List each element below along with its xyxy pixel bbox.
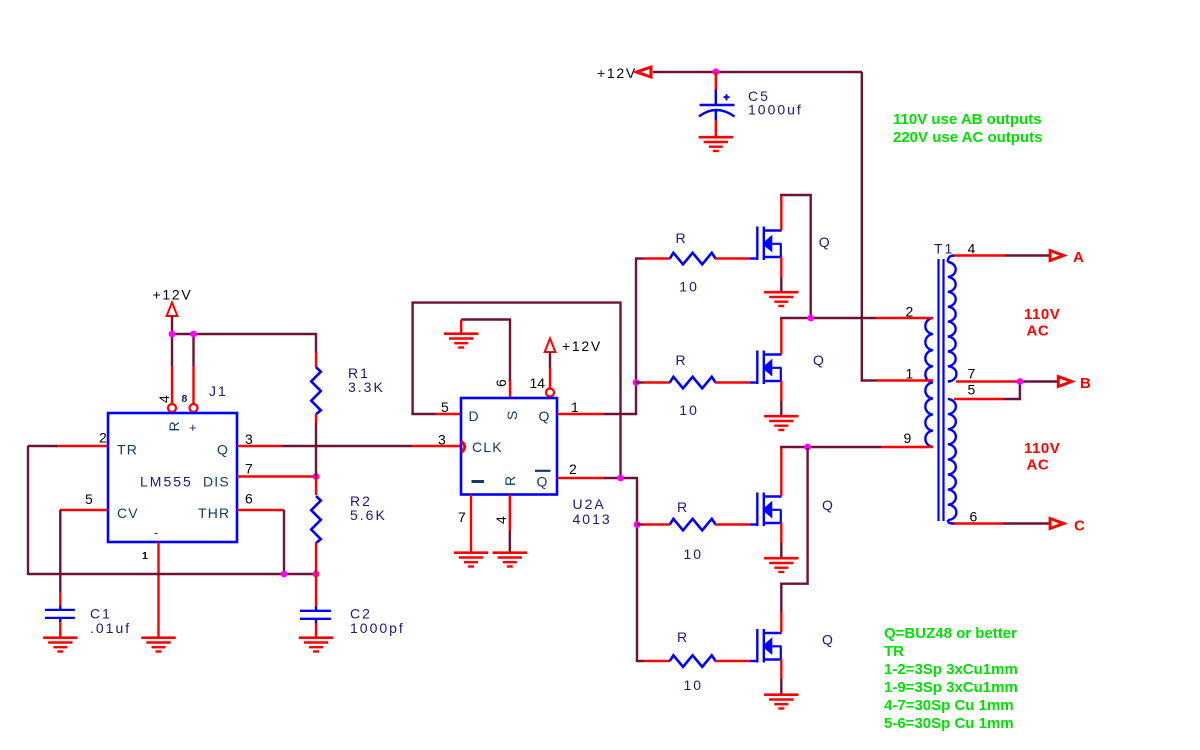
wire Q2 drain lead xyxy=(780,317,782,354)
wire pin1 ground stem xyxy=(157,542,159,637)
wire Q3 source lead xyxy=(780,523,782,544)
node junction pin8 rail xyxy=(190,331,197,338)
svg-text:4013: 4013 xyxy=(573,511,612,527)
node junction C2/bottom net xyxy=(313,571,320,578)
node junction Q trunk / R row2 xyxy=(633,379,640,386)
svg-text:2: 2 xyxy=(99,430,107,446)
svg-text:AC: AC xyxy=(1027,457,1050,474)
+12V port (pin14) xyxy=(545,339,556,353)
wire TR pin2 xyxy=(56,445,108,447)
svg-text:110V use AB outputs: 110V use AB outputs xyxy=(893,111,1042,128)
wire Q4 source lead xyxy=(780,659,782,679)
wire Q1 drain lead xyxy=(780,194,782,230)
ground (C5) xyxy=(699,137,733,151)
svg-text:Q=BUZ48 or better: Q=BUZ48 or better xyxy=(884,625,1017,642)
pin name minus bar xyxy=(472,480,485,483)
wire node to transformer pin2 xyxy=(780,317,876,319)
svg-text:10: 10 xyxy=(684,546,704,562)
wire Q1 drain loop to node xyxy=(780,195,811,318)
wire gate lead row1 xyxy=(635,257,644,259)
svg-text:A: A xyxy=(1073,249,1084,266)
node junction Q3/Q4 drains xyxy=(804,444,811,451)
wire Q4 drain lead xyxy=(780,611,782,633)
primary winding 2-1-9 xyxy=(925,318,933,447)
svg-text:.01uf: .01uf xyxy=(90,620,131,636)
svg-text:5-6=30Sp Cu 1mm: 5-6=30Sp Cu 1mm xyxy=(884,715,1014,732)
port B arrow xyxy=(1058,377,1072,387)
wire output A xyxy=(954,254,1005,256)
node junction THR/bottom net xyxy=(281,571,288,578)
svg-text:110V: 110V xyxy=(1024,440,1060,457)
wire C2 bottom lead xyxy=(315,623,317,637)
wire Q gate trunk vertical xyxy=(635,259,637,416)
wire pin4 ground stem xyxy=(509,495,511,531)
node junction DIS/R1/R2 xyxy=(313,473,320,480)
svg-text:AC: AC xyxy=(1027,323,1050,340)
wire bottom net horizontal xyxy=(28,573,316,575)
svg-text:R: R xyxy=(677,629,689,645)
secondary winding 5-6 xyxy=(948,399,957,524)
ground (Q4) xyxy=(764,695,798,709)
svg-text:1000uf: 1000uf xyxy=(748,102,803,118)
J1 pin 8 circle xyxy=(190,404,198,412)
wire resistor to gate row2 xyxy=(715,381,751,383)
wire THR pin6 xyxy=(237,509,284,511)
wire Q4 drain riser to node xyxy=(781,448,807,612)
svg-text:R: R xyxy=(676,230,688,246)
svg-text:8: 8 xyxy=(182,393,188,405)
transistor Q4 (NMOS) xyxy=(757,629,781,663)
svg-text:1-2=3Sp 3xCu1mm: 1-2=3Sp 3xCu1mm xyxy=(884,661,1018,678)
svg-text:6: 6 xyxy=(970,509,978,525)
resistor R (row4 gate) xyxy=(670,655,716,667)
svg-text:T1: T1 xyxy=(934,241,954,257)
svg-text:5.6K: 5.6K xyxy=(350,507,387,523)
capacitor C5 1000uf (electrolytic) xyxy=(699,90,735,138)
svg-text:B: B xyxy=(1080,375,1091,392)
svg-text:220V use AC outputs: 220V use AC outputs xyxy=(893,129,1042,146)
svg-text:Q: Q xyxy=(537,474,549,490)
svg-text:THR: THR xyxy=(198,505,230,521)
ground (Q2) xyxy=(764,416,798,430)
svg-text:LM555: LM555 xyxy=(140,474,193,490)
wire gate lead row2 xyxy=(636,381,644,383)
wire resistor to gate row1 xyxy=(715,257,751,259)
svg-text:4: 4 xyxy=(156,395,172,403)
svg-text:Q: Q xyxy=(813,352,826,368)
svg-text:-: - xyxy=(154,525,158,540)
transistor Q2 (NMOS) xyxy=(757,351,781,385)
wire Q2 source lead xyxy=(780,381,782,402)
wire gate lead row3 xyxy=(637,523,644,525)
svg-text:7: 7 xyxy=(968,366,976,382)
ground (Q1) xyxy=(764,292,798,306)
IC U2A 4013 box xyxy=(461,398,557,495)
wire THR drop to bottom net xyxy=(283,510,285,574)
svg-text:TR: TR xyxy=(884,643,904,660)
resistor R1 3.3K xyxy=(311,352,321,477)
wire +12V stem xyxy=(171,316,173,335)
svg-text:TR: TR xyxy=(117,442,138,458)
port A arrow xyxy=(1050,251,1064,261)
svg-text:C: C xyxy=(1074,518,1085,535)
ground (pin4) xyxy=(493,553,527,567)
svg-text:1000pf: 1000pf xyxy=(350,620,405,636)
wire Q1 source lead xyxy=(780,257,782,278)
wire resistor to gate row3 xyxy=(715,523,751,525)
transformer core xyxy=(939,259,944,521)
ground (S pin) xyxy=(444,334,478,348)
ground (pin7) xyxy=(454,553,488,567)
svg-text:5: 5 xyxy=(441,399,449,415)
wire TR left vertical xyxy=(27,446,29,575)
wire top rail horizontal xyxy=(653,71,862,73)
ground (555 pin1) xyxy=(141,638,175,652)
node junction C5 tap xyxy=(712,68,719,75)
svg-text:CV: CV xyxy=(117,505,139,521)
svg-text:+12V: +12V xyxy=(562,338,602,354)
svg-text:U2A: U2A xyxy=(573,496,606,512)
node junction Q1/Q2 drains xyxy=(807,315,814,322)
svg-text:1-9=3Sp 3xCu1mm: 1-9=3Sp 3xCu1mm xyxy=(884,679,1018,696)
svg-text:Q: Q xyxy=(217,442,229,458)
svg-text:Q: Q xyxy=(822,497,835,513)
svg-text:4: 4 xyxy=(493,516,509,524)
svg-text:5: 5 xyxy=(968,382,976,398)
transistor Q3 (NMOS) xyxy=(757,493,781,527)
svg-text:Q: Q xyxy=(819,234,832,250)
pin name Qbar xyxy=(535,471,551,490)
svg-text:J1: J1 xyxy=(209,383,228,399)
wire C2 top lead xyxy=(315,574,317,607)
wire pin14 stem xyxy=(549,352,551,368)
svg-text:+12V: +12V xyxy=(153,287,193,303)
svg-text:10: 10 xyxy=(679,402,699,418)
svg-text:S: S xyxy=(504,409,520,420)
svg-text:1: 1 xyxy=(571,399,579,415)
wire +12V vertical feed to transformer pin 1 xyxy=(862,72,877,381)
wire D pin5 stub xyxy=(435,413,461,415)
svg-text:3: 3 xyxy=(245,431,253,447)
wire gate lead row4 xyxy=(637,661,644,662)
svg-text:CLK: CLK xyxy=(472,439,503,455)
resistor R (row3 gate) xyxy=(670,519,716,531)
capacitor C1 .01uf xyxy=(45,606,75,623)
wire CV pin5 xyxy=(60,509,108,511)
svg-text:110V: 110V xyxy=(1024,306,1060,323)
wire Qbar gate trunk vertical xyxy=(636,478,638,662)
wire Q(555) to CLK(4013) xyxy=(237,445,282,447)
svg-text:3.3K: 3.3K xyxy=(348,379,385,395)
wire node to transformer pin9 xyxy=(808,446,881,448)
svg-text:6: 6 xyxy=(245,491,253,507)
svg-text:14: 14 xyxy=(530,375,546,391)
node junction pin7/pin5 xyxy=(1017,378,1024,385)
resistor R2 5.6K xyxy=(311,477,321,575)
svg-text:DIS: DIS xyxy=(203,474,230,490)
wire resistor to gate row4 xyxy=(715,660,751,662)
node junction Qbar trunk / R row3 xyxy=(634,521,641,528)
wire C5 top lead xyxy=(715,72,717,92)
svg-text:4: 4 xyxy=(968,241,976,257)
wire DIS pin7 xyxy=(237,475,316,477)
resistor R (row1 gate) xyxy=(670,253,716,264)
svg-text:Q: Q xyxy=(539,408,551,424)
wire Q pin1 output xyxy=(557,413,604,415)
svg-text:7: 7 xyxy=(245,461,253,477)
svg-text:R: R xyxy=(676,352,688,368)
svg-text:3: 3 xyxy=(438,432,446,448)
svg-text:R: R xyxy=(677,499,689,515)
pin 14 circle xyxy=(546,389,554,397)
op IC U1 LM555 box xyxy=(108,413,237,542)
wire pin5 riser xyxy=(954,398,1003,400)
clock wedge xyxy=(461,441,465,452)
svg-text:D: D xyxy=(469,408,480,424)
ground (C2) xyxy=(299,638,333,652)
J1 pin 4 circle xyxy=(168,404,176,412)
svg-text:1: 1 xyxy=(142,550,148,562)
ground (Q3) xyxy=(764,558,798,572)
wire S pin ground route xyxy=(509,380,511,398)
svg-text:+: + xyxy=(189,420,197,435)
+12V left port arrow xyxy=(637,67,652,77)
svg-text:R: R xyxy=(166,420,182,431)
ground (C1) xyxy=(43,638,77,652)
svg-text:5: 5 xyxy=(85,491,93,507)
svg-text:Q: Q xyxy=(822,632,835,648)
svg-text:+12V: +12V xyxy=(597,65,637,81)
+12V port (555 supply) xyxy=(167,303,178,317)
wire output C xyxy=(954,522,1003,524)
svg-text:9: 9 xyxy=(904,430,912,446)
svg-text:10: 10 xyxy=(684,677,704,693)
wire Q3 drain lead xyxy=(780,446,782,496)
svg-text:7: 7 xyxy=(458,509,466,525)
wire CV vertical to C1 xyxy=(59,510,61,592)
wire Qbar pin2 output xyxy=(557,477,605,479)
wire Q3 drain corner to node xyxy=(780,446,808,448)
capacitor C2 1000pf xyxy=(300,607,331,624)
wire pin2 stub tail xyxy=(920,317,933,319)
wire pin8 drop xyxy=(192,334,194,366)
svg-text:4-7=30Sp Cu 1mm: 4-7=30Sp Cu 1mm xyxy=(884,697,1014,714)
svg-text:R: R xyxy=(502,475,518,486)
svg-text:2: 2 xyxy=(569,461,577,477)
resistor R (row2 gate) xyxy=(670,377,716,389)
wire pin9 stub tail xyxy=(920,446,933,448)
wire pin4 drop xyxy=(171,334,173,366)
wire supply rail to R1 top xyxy=(172,334,316,353)
wire pin7 ground stem xyxy=(470,495,472,553)
svg-text:6: 6 xyxy=(493,379,509,387)
wire output B from pin7 xyxy=(956,380,1020,382)
svg-text:10: 10 xyxy=(679,279,699,295)
transistor Q1 (NMOS) xyxy=(757,227,781,261)
node junction pin4 rail xyxy=(169,331,176,338)
svg-text:2: 2 xyxy=(906,304,914,320)
port C arrow xyxy=(1050,519,1064,529)
svg-text:1: 1 xyxy=(906,366,914,382)
secondary winding 4-7 xyxy=(948,256,957,382)
wire feedback loop Qbar to D xyxy=(413,303,621,478)
wire C1 bottom lead xyxy=(59,622,61,637)
wire pin1 stub xyxy=(876,379,933,381)
node junction feedback/Qbar xyxy=(617,475,624,482)
